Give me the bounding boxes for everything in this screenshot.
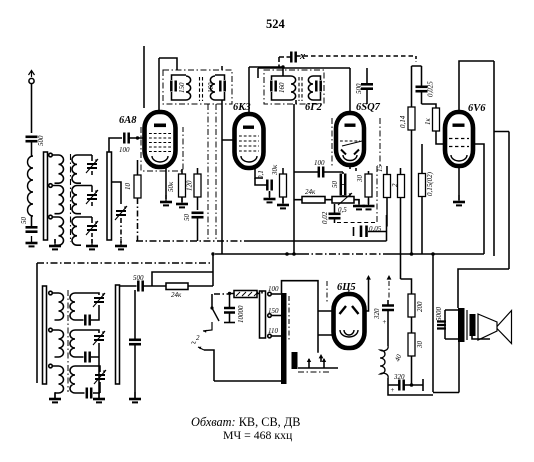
svg-text:50: 50 <box>183 214 191 222</box>
capacitor 500 (osc coupling) <box>133 274 144 292</box>
svg-text:50: 50 <box>20 217 28 225</box>
svg-text:200: 200 <box>416 301 424 312</box>
IF2 primary winding <box>291 76 296 100</box>
svg-text:МЧ = 468 кхц: МЧ = 468 кхц <box>223 428 293 442</box>
capacitor 100 (detector) <box>314 159 325 178</box>
svg-text:100: 100 <box>119 146 130 154</box>
wire right bar to 500 cap <box>120 285 137 287</box>
svg-text:320: 320 <box>393 373 405 381</box>
output transformer primary loop <box>445 310 458 339</box>
6SQ7 cathode arc <box>343 155 357 161</box>
wire 6A8 plate to IF1 <box>159 58 177 70</box>
svg-text:100: 100 <box>314 159 325 167</box>
svg-text:0,14: 0,14 <box>399 115 407 128</box>
coil (RF winding 3b) <box>72 217 81 245</box>
phono capacitor x <box>291 51 305 63</box>
wire dash to ground <box>120 218 122 243</box>
svg-text:2: 2 <box>196 334 200 342</box>
capacitor 10000 (line filter) <box>224 294 245 324</box>
svg-text:+: + <box>382 318 387 326</box>
node terminal (RF band 2) <box>49 184 53 188</box>
ground (volume pot) <box>353 199 365 209</box>
ground (osc left) <box>49 392 61 402</box>
wire vertical x221 <box>222 104 235 254</box>
trimmer (osc 1) <box>79 293 105 307</box>
heater wire <box>298 367 338 369</box>
wire dash-dot to AVC bus <box>137 198 139 241</box>
wire 6Ц5 plate feed from transformer <box>282 281 335 353</box>
wire 6A8 osc grid down <box>137 160 139 175</box>
resistor 50k (screen) <box>167 174 186 197</box>
IF2 secondary winding <box>308 76 313 100</box>
oscillator coil unit right bar <box>116 285 120 384</box>
capacitor (osc padding 3) <box>79 388 100 399</box>
tap terminal 110 <box>268 334 281 338</box>
svg-text:6V6: 6V6 <box>468 103 486 114</box>
IF transformer 1 shield box <box>163 70 232 104</box>
RF coil core dash line <box>70 154 72 242</box>
wire res30 <box>368 171 370 204</box>
wire IF1 secondary to 6K3 grid <box>221 66 223 70</box>
svg-text:150: 150 <box>178 82 186 93</box>
resistor 2 <box>391 175 405 198</box>
capacitor (osc padding 1) <box>79 305 99 326</box>
wire 6V6 screen <box>473 144 484 254</box>
6K3 cathode arc <box>241 156 257 162</box>
6A8 anode bar <box>154 124 166 128</box>
resistor 120 <box>186 174 202 197</box>
wire fuse to primary <box>261 291 264 294</box>
resistor 0,5M (grid leak) <box>419 171 435 196</box>
coil (RF winding 3a) <box>53 217 64 245</box>
svg-text:500: 500 <box>355 83 363 94</box>
vacuum tube 6SQ7 envelope <box>336 113 364 165</box>
wire cap to ground <box>255 178 270 197</box>
svg-text:2: 2 <box>391 183 399 187</box>
wire 6SQ7 grid top <box>349 68 351 113</box>
wire avc riser <box>152 272 213 286</box>
vacuum tube 6K3 envelope <box>235 114 264 168</box>
IF1 left capacitor 150 <box>171 81 186 94</box>
capacitor (osc tank) <box>129 290 141 399</box>
wire windings bottom <box>55 239 92 243</box>
arrow (cathode heater) <box>319 354 324 362</box>
node terminal (RF band 3) <box>49 215 53 219</box>
tuning capacitor (RF) <box>115 206 127 220</box>
wire antenna down <box>31 84 33 133</box>
svg-text:Обхват: КВ, СВ, ДВ: Обхват: КВ, СВ, ДВ <box>191 415 300 429</box>
wire phono end <box>415 56 417 62</box>
trimmer (osc 3) <box>79 366 106 393</box>
antenna terminal <box>29 71 35 84</box>
ground (6K3 cathode) <box>264 192 276 202</box>
osc terminal 2 <box>49 328 53 332</box>
switch lower lead <box>203 322 212 331</box>
svg-text:50к: 50к <box>167 181 175 192</box>
RF coil unit right shield bar <box>107 152 112 240</box>
capacitor 500 (6SQ7 grid) <box>355 83 373 94</box>
wire 120 bottom <box>197 197 199 210</box>
svg-text:24к: 24к <box>305 188 316 196</box>
osc bus (dash-dot) <box>37 262 213 264</box>
wire cap320a leads <box>387 300 389 346</box>
node terminal (RF band 1) <box>49 153 53 157</box>
wire 24k to riser <box>188 285 213 287</box>
capacitor (antenna coil bottom) <box>26 227 38 231</box>
6SQ7 diode plates <box>341 150 359 155</box>
dash-dot stub at switch <box>214 293 228 295</box>
svg-text:5000: 5000 <box>435 307 443 322</box>
6SQ7 grid arrow <box>342 141 362 146</box>
wire grid top horizontal <box>258 68 350 78</box>
ground (tuning cap) <box>115 239 127 249</box>
tap terminal 100 <box>268 292 281 296</box>
svg-text:6SQ7: 6SQ7 <box>356 102 381 113</box>
wire pot right <box>354 200 359 204</box>
resistor 10 (osc grid leak) <box>124 175 141 198</box>
power transformer dash line <box>288 296 290 342</box>
coil osc 2b <box>70 330 79 357</box>
svg-text:0,1: 0,1 <box>257 170 265 179</box>
ground (osc mid) <box>93 392 105 402</box>
wire 6SQ7 cathode <box>350 165 356 171</box>
volume potentiometer 0,5M <box>332 193 354 214</box>
6Ц5 cathode arcs <box>340 330 358 337</box>
resistor 30 (AF) <box>356 174 372 197</box>
wire pot left to 24k <box>294 199 332 201</box>
wire OT secondary down <box>458 342 460 393</box>
wire cap 500 leads <box>366 68 368 104</box>
dash-dot stubs above detector <box>376 166 378 222</box>
AVC bus (dash-dot) <box>136 240 246 242</box>
resistor 24k (diode load horizontal) <box>302 188 325 203</box>
coil (RF winding 2b) <box>72 186 81 214</box>
output transformer secondary bar <box>470 314 476 336</box>
mains symbol ~ <box>191 338 204 350</box>
svg-text:+: + <box>390 386 395 394</box>
trimmer capacitor (band 1) <box>86 155 98 177</box>
6K3 grids (dashed) <box>239 136 259 151</box>
heater arrow 1 <box>307 358 311 368</box>
ground (30k) <box>277 198 289 208</box>
IF2 wiring <box>272 76 321 104</box>
wire mains bottom to transformer <box>214 380 283 382</box>
capacitor 0,1 (cathode) <box>257 170 272 190</box>
speaker cone <box>478 311 512 344</box>
svg-text:40: 40 <box>393 353 403 363</box>
osc terminal 3 <box>49 364 53 368</box>
IF1 secondary winding <box>207 76 215 100</box>
wire speaker bottom <box>472 336 490 339</box>
wire switch up <box>211 294 213 308</box>
wire bottom return <box>388 385 433 395</box>
B+ bus dash-dot middle <box>302 253 390 255</box>
6A8 cathode arc <box>152 156 168 162</box>
capacitor 50 (cathode bypass) <box>183 213 204 221</box>
svg-text:524: 524 <box>266 17 286 31</box>
wire plate line to IF2 <box>249 67 283 76</box>
IF1 right capacitor <box>220 81 224 92</box>
wire right bus down <box>494 61 509 269</box>
wire 6Ц5 plate 2 with arrow <box>365 275 371 311</box>
ground (6V6 cathode) <box>453 195 465 205</box>
svg-text:320: 320 <box>373 308 381 320</box>
wire aux vertical left of 6A8 <box>143 46 145 108</box>
coil osc 1b <box>70 293 79 320</box>
wire filter to bus riser <box>432 254 434 392</box>
output transformer core bar <box>458 308 465 342</box>
wire grid feed up <box>109 138 122 152</box>
wire 0,5M leads <box>421 144 423 255</box>
wire res30 bottom <box>411 356 413 385</box>
IF2 right capacitor <box>316 81 320 92</box>
wire osc left down <box>36 263 38 383</box>
wire res2 leads <box>400 168 402 279</box>
wire 6A8 cathode down <box>165 167 167 199</box>
node junction bus <box>410 252 414 256</box>
6V6 cathode arc <box>451 155 467 161</box>
coil (RF winding 2a) <box>53 186 64 214</box>
wire fuse leads <box>230 293 263 295</box>
IF2 capacitor 160 <box>271 81 286 94</box>
wire phono left <box>279 57 291 68</box>
wire field coil bottom <box>387 378 389 385</box>
ground (6A8 cathode) <box>160 195 172 205</box>
IF1 primary winding <box>186 76 191 100</box>
heater dash-dot line <box>298 371 330 373</box>
capacitor 0,02 (tone) <box>321 211 341 224</box>
svg-text:0,025: 0,025 <box>427 81 435 97</box>
svg-text:6А8: 6А8 <box>119 115 137 126</box>
resistor 15 <box>376 165 391 198</box>
capacitor 320 (filter output) <box>390 373 405 394</box>
ground (RF unit) <box>49 239 61 249</box>
field coil 40 <box>380 346 403 378</box>
wire 6K3 plate up to IF2 <box>248 67 250 114</box>
dash-dot shield box 6A8 <box>141 127 183 171</box>
wire bottom bus <box>433 392 459 394</box>
svg-text:120: 120 <box>186 180 194 191</box>
coil osc 3a <box>53 366 64 393</box>
wire 6V6 cathode <box>458 166 460 200</box>
capacitor 0,025 (coupling) <box>416 81 435 97</box>
resistor 1k (grid stopper) <box>424 108 440 131</box>
wire mains down <box>204 350 214 381</box>
wire winding tops to trimmers <box>81 155 92 217</box>
osc core dash <box>67 290 69 392</box>
svg-text:160: 160 <box>207 82 215 93</box>
trimmer capacitor (band 3) <box>86 217 98 241</box>
wire to 6A8 grid <box>129 137 145 139</box>
node junction bus2 <box>431 252 435 256</box>
6SQ7 grid dashes <box>340 140 360 142</box>
oscillator coil unit left bar <box>43 286 47 384</box>
svg-text:10: 10 <box>124 183 132 191</box>
wire res15 leads <box>386 166 388 227</box>
wire feed to resistors <box>401 279 412 294</box>
wire IF2 secondary down to detector <box>293 104 295 254</box>
wire cap 0,02 <box>334 204 336 223</box>
6SQ7 anode bar <box>345 124 356 127</box>
coil osc 3b <box>70 366 79 393</box>
node junction (B- ) <box>410 383 414 387</box>
wire screen divider vertical <box>208 104 216 241</box>
wire phono dashed right <box>296 55 416 57</box>
node junction <box>136 136 139 139</box>
IF1 wiring <box>172 75 225 104</box>
B+ bus <box>215 253 484 255</box>
svg-text:30к: 30к <box>271 164 279 176</box>
output transformer core line 2 <box>466 310 468 340</box>
wire tuning cap feed <box>112 182 122 204</box>
capacitor (osc padding 2) <box>79 352 99 363</box>
coil osc 1a <box>53 293 64 320</box>
wire between resistors <box>411 317 413 333</box>
wire <box>31 216 33 226</box>
resistor 24k (osc grid) <box>166 283 188 299</box>
switch contact upper <box>210 306 213 309</box>
ground (50k) <box>176 197 188 207</box>
6V6 anode bar <box>453 124 465 127</box>
wire cap320b <box>388 384 423 386</box>
svg-text:24к: 24к <box>171 291 182 299</box>
resistor 30k <box>271 164 287 197</box>
wire <box>31 141 33 156</box>
dash-dot vert to cap 320 <box>387 275 392 300</box>
svg-text:50: 50 <box>331 181 339 189</box>
svg-text:6Ц5: 6Ц5 <box>337 282 356 293</box>
svg-text:30: 30 <box>416 341 424 350</box>
vacuum tube 6V6 envelope <box>445 112 473 166</box>
coil 50 (antenna coil) <box>20 156 33 224</box>
capacitor 0,05 <box>354 225 382 237</box>
power transformer secondary bar (solid) <box>281 293 287 384</box>
wire 6A8 plate up <box>158 58 160 112</box>
vacuum tube 6A8 envelope <box>145 112 176 167</box>
capacitor 100 (6A8 grid) <box>119 133 130 155</box>
wire riser up to bus <box>212 254 214 286</box>
wire right bus bottom step <box>458 269 509 308</box>
wire 500 to 24k <box>143 285 166 287</box>
wire cap 0,05 to riser <box>368 215 387 241</box>
tap terminal 150 <box>268 314 281 318</box>
svg-text:1к: 1к <box>424 118 432 126</box>
coil osc 2a <box>53 330 64 357</box>
wire 0,14 leads <box>412 66 422 254</box>
trimmer (osc 2) <box>79 330 105 399</box>
svg-text:30: 30 <box>356 175 364 184</box>
dash-dot shield left of 6Ц5 <box>326 281 328 303</box>
wire 1k top <box>422 104 437 108</box>
wire cap 50 down to bus <box>197 217 199 241</box>
heater arrow 2 <box>322 358 326 368</box>
coil (RF winding 1a) <box>53 155 64 183</box>
dash-dot shield 6SQ7 <box>332 118 380 168</box>
wire 0,025 down <box>421 91 423 104</box>
svg-text:6Г2: 6Г2 <box>305 102 323 113</box>
svg-text:500: 500 <box>37 135 45 146</box>
wire 6V6 plate up and to right bus <box>459 61 494 112</box>
capacitor (tone across primary) <box>437 322 446 329</box>
capacitor 500 (antenna) <box>26 135 46 146</box>
fusible resistor (mains) <box>234 291 258 298</box>
6V6 grid dashes <box>449 139 469 147</box>
vacuum tube 6Ц5 envelope <box>334 294 365 348</box>
svg-text:6К3: 6К3 <box>233 102 251 113</box>
node junction (fuse) <box>228 292 231 295</box>
osc terminal 1 <box>49 291 53 295</box>
RF coil unit left shield bar <box>44 152 48 240</box>
ground <box>26 236 38 246</box>
resistor 0,14 (plate load) <box>399 107 415 130</box>
coil (RF winding 1b) <box>72 155 81 183</box>
svg-text:0,15(02): 0,15(02) <box>426 171 434 196</box>
IF1 core dashes <box>200 77 203 101</box>
switch arrow <box>203 330 207 333</box>
power transformer filament bar <box>292 352 298 369</box>
ground (trimmers) <box>86 239 98 249</box>
wire 6K3 cathode network <box>255 168 263 178</box>
6Ц5 plate marks <box>340 306 359 314</box>
wire 30k top <box>282 168 284 174</box>
wire detector <box>294 171 343 173</box>
node junction bus3 <box>285 252 289 256</box>
ground (res 30) <box>363 199 375 209</box>
resistor 30 (bleeder) <box>408 333 424 356</box>
svg-text:500: 500 <box>133 274 144 282</box>
trimmer capacitor (band 2) <box>86 186 98 209</box>
wire 30k bottom <box>282 197 284 203</box>
capacitor 50 (detector filter a) <box>331 174 345 189</box>
svg-text:0,02: 0,02 <box>321 211 329 224</box>
wire 0,025 top <box>421 66 423 87</box>
switch arm <box>212 308 219 321</box>
IF2 core dashes <box>299 77 302 101</box>
wire screen leads down <box>182 168 198 174</box>
IF transformer 2 shield box <box>264 70 324 104</box>
svg-text:160: 160 <box>278 82 286 93</box>
6K3 anode bar <box>243 126 254 129</box>
capacitor (detector filter b) <box>341 185 345 196</box>
dash wire tone cap to shield <box>337 222 375 224</box>
6A8 grids (dashed) <box>149 134 171 152</box>
ground (osc tank cap) <box>129 392 141 402</box>
capacitor 320 (filter input) <box>373 306 394 327</box>
wire 1k to 6V6 grid <box>436 131 445 144</box>
resistor 200 (bleeder) <box>408 294 424 317</box>
wire diode load <box>342 172 344 199</box>
cap320b end bar <box>422 379 424 391</box>
power transformer primary (tapped) <box>260 291 266 338</box>
svg-text:10000: 10000 <box>237 305 245 323</box>
